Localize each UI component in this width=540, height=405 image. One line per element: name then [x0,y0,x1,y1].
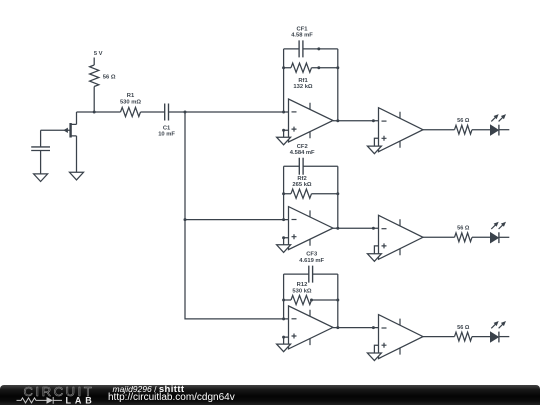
junction res row right stage 2 [336,192,339,195]
value label R12 530 k&#937; [292,282,312,294]
junction buffer U6 input [372,326,375,329]
wire cap row stage 2 [284,165,338,167]
resistor Rf1 [291,63,312,72]
svg-text:132 kΩ: 132 kΩ [293,84,313,90]
svg-text:4.584 mF: 4.584 mF [290,150,315,156]
wire LED D3 cathode stub [499,336,509,338]
resistor 56ohm LED stage 1 [455,125,473,134]
op-amp U3 [289,306,334,349]
wire feedback left vertical stage 2 [283,166,285,219]
wire resistor row stage 2 [284,193,338,195]
resistor 56ohm LED stage 3 [455,332,473,341]
resistor Rf2 [291,189,312,198]
wire resistor row stage 3 [284,299,338,301]
wire LED D2 cathode stub [499,236,509,238]
junction res row left stage 2 [282,192,285,195]
wire buffer U6 to R3 LED resistor [423,336,455,338]
wire U2 non-inverting to ground [284,238,289,245]
svg-text:Rf2: Rf2 [297,176,306,182]
value label CF3 4.619 mF [299,252,324,264]
ground at C2 [34,174,48,182]
junction U2 inverting input [282,218,285,221]
junction U3 plus corner [282,336,285,339]
wire node A to stage 2 and 3 inputs [185,112,289,319]
svg-text:265 kΩ: 265 kΩ [292,182,312,188]
wire buffer U5 to R2 LED resistor [423,236,455,238]
wire resistor row stage 1 [284,67,338,69]
capacitor C2 (gate) [31,147,50,151]
svg-text:CF3: CF3 [306,252,318,258]
junction buffer U4 input [372,119,375,122]
junction res row right stage 1 [317,66,320,69]
ground at Q1 source [70,172,84,180]
junction res/right vertical stage 1 [336,66,339,69]
wire U1 output to buffer U4 [333,120,379,122]
value label C1 10 mF [158,125,175,137]
wire resistor to LED D2 [472,236,491,238]
wire R1 to C1 [141,111,165,113]
svg-text:C1: C1 [163,125,171,131]
svg-text:4.58 mF: 4.58 mF [291,33,313,39]
wire R2 to rail [93,87,95,113]
wire feedback right vertical stage 1 [337,49,339,121]
wire 5V to R2 [93,58,95,66]
svg-text:56 Ω: 56 Ω [103,75,116,81]
junction res row left stage 3 [282,299,285,302]
op-amp buffer U5 [379,215,424,259]
wire feedback left vertical stage 1 [283,49,285,112]
capacitor CF3 [309,266,313,283]
capacitor CF2 [299,158,303,175]
svg-text:10 mF: 10 mF [158,132,175,138]
wire U3 non-inverting to ground [284,337,289,344]
transistor Q1 p-JFET [41,112,77,172]
wire cap row stage 1 [284,48,338,50]
wire feedback right vertical stage 2 [337,166,339,228]
LED D1 [491,114,507,135]
junction output/feedback stage 2 [336,227,339,230]
junction node A split [184,111,187,114]
junction U2 plus corner [282,236,285,239]
junction output/feedback stage 3 [336,326,339,329]
junction cap row stage 1 [317,47,320,50]
wire buffer U4 to R1 LED resistor [423,129,455,131]
svg-text:56 Ω: 56 Ω [457,118,470,124]
value label Rf2 265 k&#937; [292,176,312,188]
svg-text:CF1: CF1 [297,26,309,32]
capacitor CF1 [299,40,303,57]
wire U4 non-inverting to ground [374,138,378,146]
wire U3 output to buffer U6 [333,327,379,329]
value label CF2 4.584 mF [290,144,315,156]
svg-text:R12: R12 [297,282,308,288]
svg-text:56 Ω: 56 Ω [457,226,470,232]
footer bar [0,385,540,405]
wire C2 to ground [40,151,42,174]
ground at buffer U4 [367,146,381,154]
CircuitLab logo [0,381,110,405]
LED D2 [491,222,507,243]
value label Rf1 132 k&#937; [293,78,313,90]
ground at buffer U5 [367,254,381,262]
wire C1 to op-amp U1 [169,111,289,113]
svg-text:530 kΩ: 530 kΩ [292,288,312,294]
junction U1 plus corner [282,129,285,132]
resistor R12 [291,295,312,304]
ground at U1 non-inverting input [277,137,291,145]
junction rail/R2 [93,111,96,114]
wire U5 non-inverting to ground [374,246,378,254]
op-amp U1 [289,99,334,142]
value label CF1 4.58 mF [291,26,313,38]
op-amp U2 [289,207,334,250]
wire branch to op-amp U2 input [185,219,289,221]
junction res row left stage 1 [282,66,285,69]
wire resistor to LED D1 [472,129,491,131]
footer text line 1 [113,385,185,395]
svg-text:CF2: CF2 [297,144,308,150]
op-amp buffer U4 [379,108,424,152]
wire U6 non-inverting to ground [374,345,378,353]
svg-text:56 Ω: 56 Ω [457,325,470,331]
svg-text:5 V: 5 V [94,51,103,57]
resistor R2 56ohm vertical [90,65,99,87]
wire LED D1 cathode stub [499,129,509,131]
junction buffer U5 input [372,227,375,230]
footer text line 2 [108,393,235,403]
wire resistor to LED D3 [472,336,491,338]
svg-text:R1: R1 [127,93,135,99]
junction stage2 branch [184,218,187,221]
ground at U2 non-inverting input [277,245,291,253]
svg-text:Rf1: Rf1 [298,78,308,84]
junction feedback/U1 inverting input [282,111,285,114]
svg-text:4.619 mF: 4.619 mF [299,258,324,264]
resistor 56ohm LED stage 2 [455,233,473,242]
ground at buffer U6 [367,353,381,361]
wire feedback left vertical stage 3 [283,274,285,319]
wire gate to C2 [40,130,42,147]
op-amp buffer U6 [379,315,424,359]
resistor R1 [121,107,141,116]
wire rail left [77,111,121,113]
capacitor C1 [165,104,169,121]
wire cap row stage 3 [284,273,338,275]
LED D3 [491,321,507,342]
junction output/feedback stage 1 [336,119,339,122]
wire U2 output to buffer U5 [333,227,379,229]
wire U1 non-inverting to ground [284,130,289,137]
svg-text:LAB: LAB [66,395,96,405]
junction res/right vertical stage 3 [336,299,339,302]
value label R1 530 mOhm [120,93,141,105]
ground at U3 non-inverting input [277,344,291,352]
wire feedback right vertical stage 3 [337,274,339,328]
junction res row right stage 3 [310,299,313,302]
svg-text:530 mΩ: 530 mΩ [120,99,141,105]
junction U3 inverting input [282,317,285,320]
